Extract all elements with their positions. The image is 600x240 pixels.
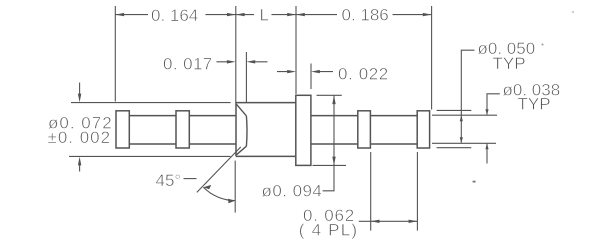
dimension 0.017	[163, 54, 268, 73]
svg-text:L: L	[260, 5, 269, 24]
dimension 0.022	[277, 65, 389, 84]
shaft segment between collar 3 and collar 4	[370, 116, 417, 144]
extension line body bottom left side	[69, 155, 230, 157]
shaft segment between flange and collar 3	[311, 116, 358, 144]
svg-text:( 4 PL): ( 4 PL)	[299, 221, 358, 240]
45 degree angle arc with arrows	[203, 185, 235, 203]
svg-text:0. 164: 0. 164	[151, 6, 198, 25]
leader dia 0.050	[460, 50, 475, 143]
flange (0.094 dia)	[296, 95, 311, 165]
extension line center body left face	[235, 6, 237, 102]
dimension 0.164	[115, 6, 236, 25]
extension line collar bottom right side	[437, 147, 472, 149]
extension line collar 3 right face below	[370, 152, 372, 231]
extension line shaft bottom right side	[432, 142, 496, 144]
dimension dia 0.094	[262, 95, 336, 200]
label dia 0.050 TYP	[478, 39, 536, 73]
svg-text:TYP: TYP	[493, 54, 526, 73]
scan speck dot top right	[572, 11, 574, 13]
dimension 0.062 (4 PL)	[299, 206, 418, 240]
center body (0.072 dia section)	[236, 103, 296, 157]
extension line flange left face	[295, 6, 297, 94]
dimension L	[236, 5, 296, 24]
label dia 0.072 plus-minus 0.002	[48, 113, 113, 147]
svg-text:0. 186: 0. 186	[342, 5, 389, 24]
collar 2	[176, 111, 189, 148]
shaft segment between collar 2 and center body	[189, 116, 236, 144]
extension line flange bottom right	[313, 164, 347, 166]
extension line body top left side	[71, 102, 231, 104]
svg-text:TYP: TYP	[518, 94, 551, 113]
bore chamfer 45 deg top edge	[236, 104, 246, 116]
bore chamfer arc	[245, 116, 248, 146]
svg-text:ø0. 094: ø0. 094	[262, 181, 323, 200]
collar 1 (left end collar)	[116, 111, 129, 148]
svg-text:45°: 45°	[156, 171, 182, 190]
svg-text:0. 017: 0. 017	[163, 54, 213, 73]
extension line below body left face	[234, 161, 236, 213]
collar 4 (right end collar)	[417, 111, 429, 148]
dimension dia 0.072 arrows	[78, 83, 81, 172]
scan speck dash	[473, 181, 476, 183]
dimension 0.186	[296, 5, 432, 24]
bore chamfer 45 deg bottom edge	[236, 146, 246, 155]
extension line collar top right side	[437, 109, 472, 111]
shaft segment between collar 1 and collar 2	[129, 116, 176, 144]
extension line chamfer depth	[245, 52, 247, 102]
label 45 degrees	[156, 171, 197, 190]
extension line flange right face	[310, 64, 312, 90]
svg-text:±0. 002: ±0. 002	[48, 128, 112, 147]
svg-text:0. 022: 0. 022	[338, 65, 389, 84]
extension line left end of part	[114, 6, 116, 102]
extension line collar 4 left face below	[416, 152, 418, 231]
scan speck dot	[542, 44, 544, 46]
label dia 0.038 TYP	[503, 80, 561, 113]
extension line shaft top right side	[432, 114, 497, 116]
45 degree reference diagonal	[197, 147, 241, 193]
extension line flange top right	[317, 94, 342, 96]
extension line right end of part	[431, 6, 433, 110]
leader dia 0.038	[485, 94, 499, 164]
collar 3	[358, 111, 371, 148]
